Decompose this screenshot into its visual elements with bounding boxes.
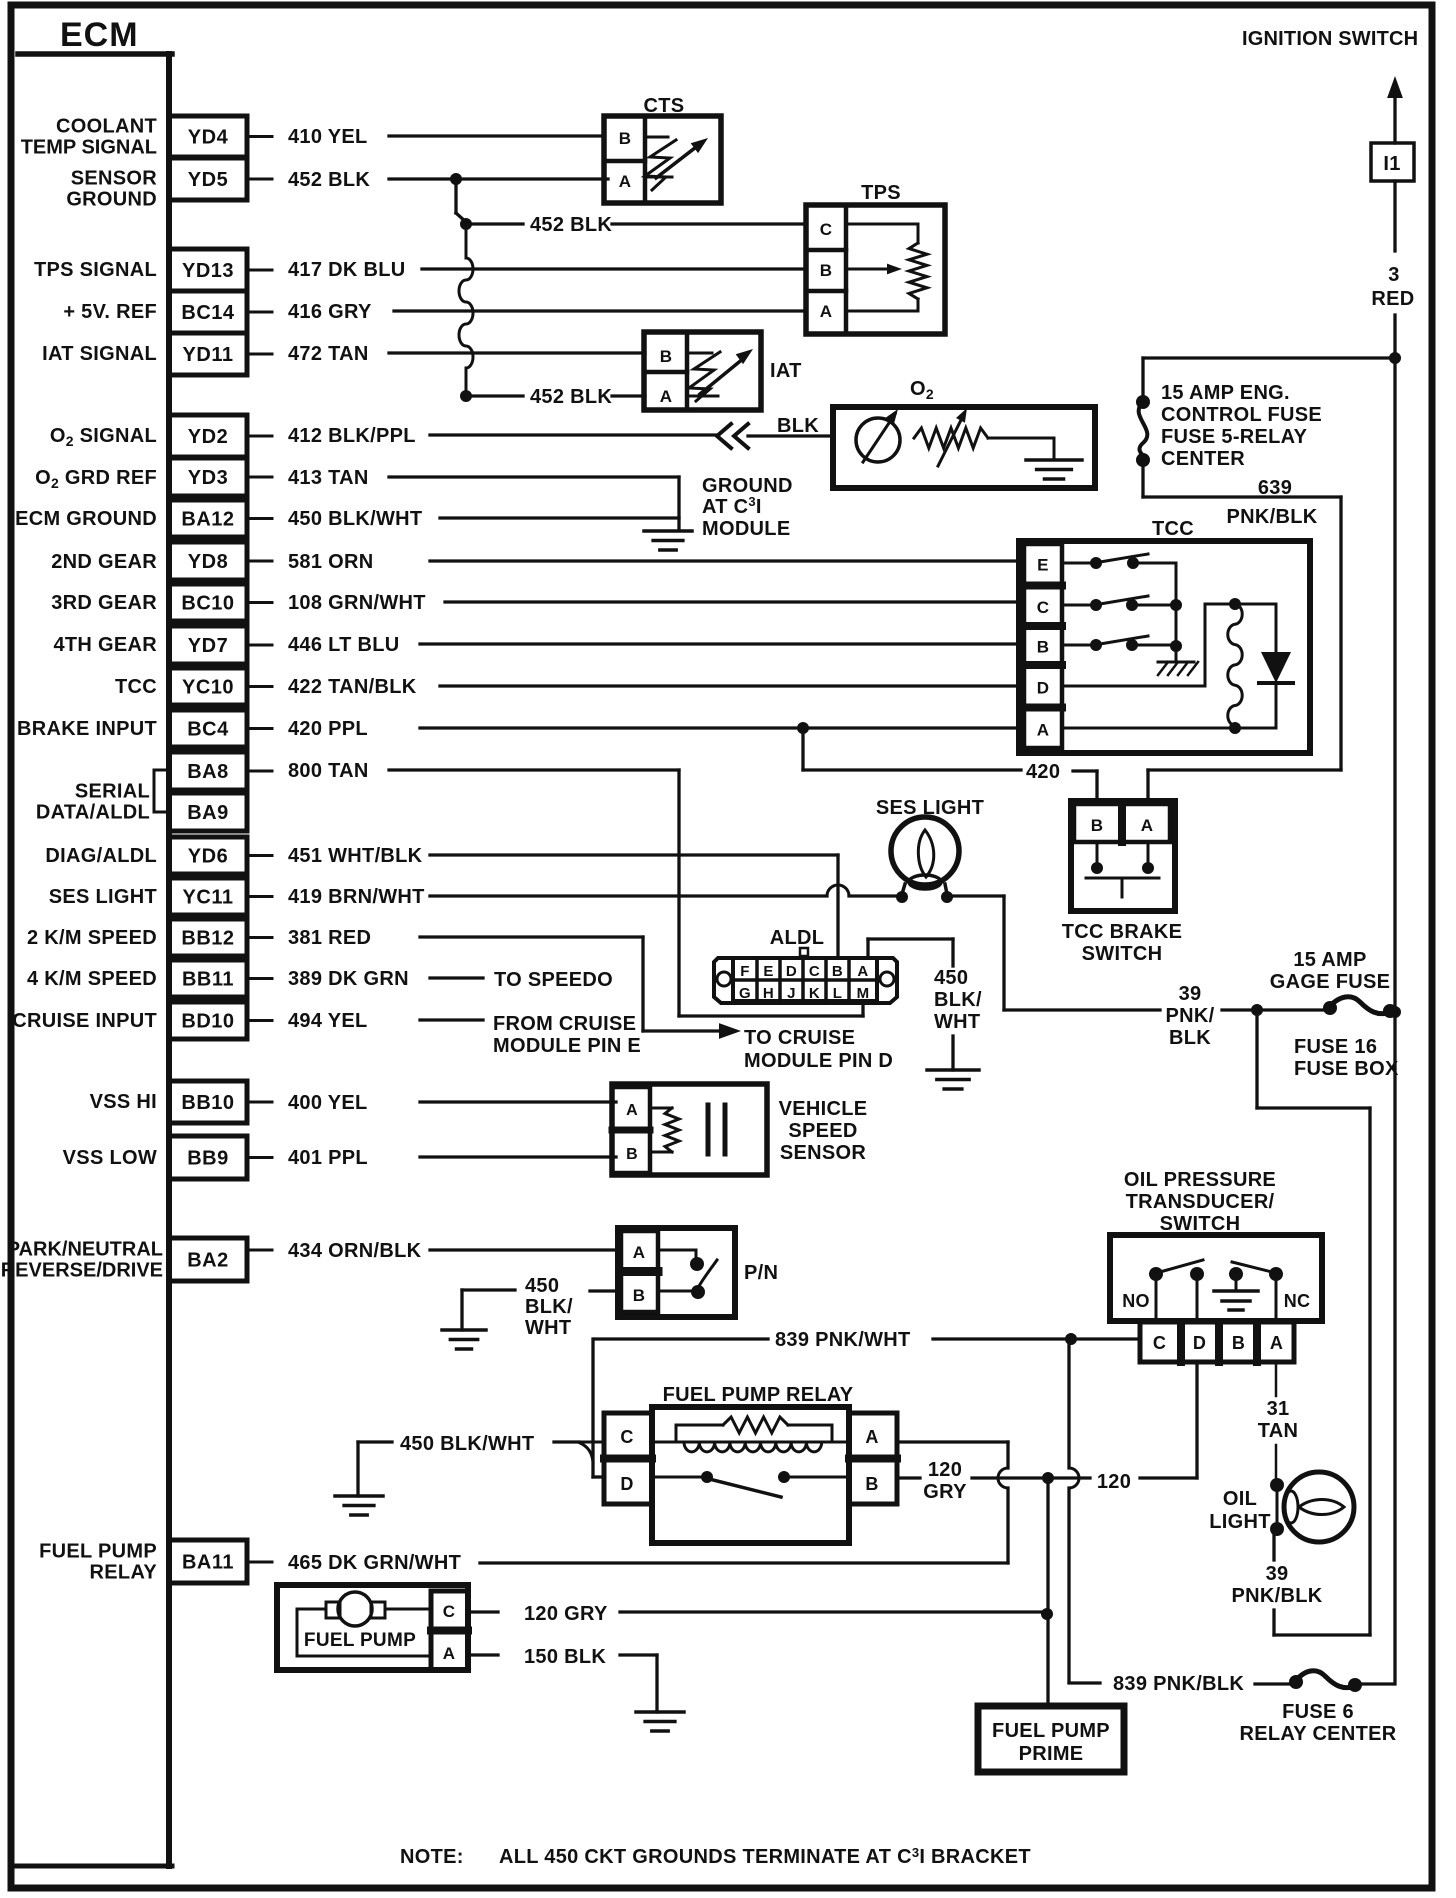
svg-text:YC10: YC10 [182, 677, 234, 699]
svg-text:RED: RED [1371, 288, 1414, 310]
svg-text:B: B [633, 1286, 646, 1305]
svg-text:TO SPEEDO: TO SPEEDO [494, 969, 613, 991]
svg-text:YC11: YC11 [183, 887, 234, 909]
svg-text:FUEL PUMP: FUEL PUMP [304, 1630, 416, 1651]
svg-text:A: A [1141, 816, 1154, 835]
svg-text:PARK/NEUTRAL: PARK/NEUTRAL [7, 1239, 163, 1261]
svg-text:400 YEL: 400 YEL [288, 1092, 368, 1114]
svg-text:COOLANT: COOLANT [56, 116, 157, 138]
svg-text:BC10: BC10 [181, 593, 234, 615]
svg-text:MODULE PIN D: MODULE PIN D [744, 1050, 893, 1072]
svg-text:120: 120 [928, 1459, 962, 1481]
svg-text:SES LIGHT: SES LIGHT [49, 886, 157, 908]
svg-text:+ 5V. REF: + 5V. REF [63, 301, 157, 323]
svg-text:RELAY: RELAY [90, 1562, 158, 1584]
svg-text:B: B [626, 1146, 638, 1163]
svg-text:422 TAN/BLK: 422 TAN/BLK [288, 676, 417, 698]
svg-text:BRAKE INPUT: BRAKE INPUT [17, 718, 157, 740]
svg-text:BD10: BD10 [181, 1011, 234, 1033]
svg-text:BC4: BC4 [187, 719, 229, 741]
svg-text:2ND GEAR: 2ND GEAR [51, 551, 157, 573]
svg-text:PNK/BLK: PNK/BLK [1232, 1585, 1323, 1607]
svg-text:I1: I1 [1383, 153, 1400, 175]
svg-text:419 BRN/WHT: 419 BRN/WHT [288, 886, 425, 908]
svg-text:SERIAL: SERIAL [75, 781, 150, 803]
svg-text:SENSOR: SENSOR [780, 1142, 867, 1164]
svg-text:G: G [739, 985, 751, 1002]
svg-text:581 ORN: 581 ORN [288, 551, 373, 573]
svg-text:452 BLK: 452 BLK [530, 386, 612, 408]
svg-text:WHT: WHT [525, 1317, 571, 1339]
svg-text:CONTROL FUSE: CONTROL FUSE [1161, 404, 1322, 426]
svg-text:434 ORN/BLK: 434 ORN/BLK [288, 1240, 422, 1262]
svg-text:YD8: YD8 [188, 551, 228, 573]
svg-text:TAN: TAN [1258, 1420, 1299, 1442]
svg-text:TEMP SIGNAL: TEMP SIGNAL [21, 137, 157, 159]
svg-text:YD11: YD11 [183, 344, 234, 366]
svg-text:DATA/ALDL: DATA/ALDL [36, 802, 150, 824]
svg-text:A: A [626, 1102, 638, 1119]
svg-text:108 GRN/WHT: 108 GRN/WHT [288, 592, 426, 614]
svg-text:4 K/M SPEED: 4 K/M SPEED [27, 968, 157, 990]
svg-text:FUSE 16: FUSE 16 [1294, 1036, 1377, 1058]
svg-text:494 YEL: 494 YEL [288, 1010, 368, 1032]
svg-text:PNK/BLK: PNK/BLK [1227, 506, 1318, 528]
svg-text:SWITCH: SWITCH [1160, 1213, 1241, 1235]
svg-text:BLK: BLK [1169, 1027, 1211, 1049]
svg-text:C: C [809, 963, 820, 980]
svg-text:150 BLK: 150 BLK [524, 1646, 606, 1668]
svg-text:A: A [633, 1243, 646, 1262]
svg-text:DIAG/ALDL: DIAG/ALDL [45, 845, 157, 867]
svg-text:B: B [619, 129, 632, 148]
svg-text:SPEED: SPEED [788, 1120, 857, 1142]
svg-text:839 PNK/BLK: 839 PNK/BLK [1113, 1673, 1244, 1695]
svg-text:416 GRY: 416 GRY [288, 301, 372, 323]
svg-text:TPS SIGNAL: TPS SIGNAL [34, 259, 157, 281]
svg-text:381 RED: 381 RED [288, 927, 371, 949]
svg-text:410 YEL: 410 YEL [288, 126, 368, 148]
svg-text:TCC BRAKE: TCC BRAKE [1062, 921, 1182, 943]
svg-text:D: D [620, 1474, 633, 1494]
svg-text:A: A [1037, 721, 1050, 740]
svg-text:800 TAN: 800 TAN [288, 760, 369, 782]
svg-text:BB12: BB12 [181, 928, 234, 950]
svg-text:3: 3 [1388, 264, 1399, 286]
svg-text:NO: NO [1122, 1291, 1150, 1311]
svg-text:39: 39 [1179, 983, 1202, 1005]
svg-text:TPS: TPS [861, 182, 901, 204]
svg-text:FUEL PUMP: FUEL PUMP [39, 1541, 157, 1563]
svg-text:FUEL PUMP: FUEL PUMP [992, 1720, 1110, 1742]
svg-text:BC14: BC14 [181, 302, 235, 324]
svg-text:ALL 450 CKT GROUNDS TERMINATE: ALL 450 CKT GROUNDS TERMINATE AT C3I BRA… [499, 1845, 1031, 1868]
svg-text:H: H [763, 985, 774, 1002]
svg-text:YD7: YD7 [188, 635, 228, 657]
svg-text:BB9: BB9 [187, 1148, 229, 1170]
svg-text:YD2: YD2 [188, 426, 228, 448]
svg-text:B: B [1037, 638, 1050, 657]
svg-text:420: 420 [1026, 761, 1060, 783]
svg-text:YD6: YD6 [188, 846, 228, 868]
svg-text:2 K/M SPEED: 2 K/M SPEED [27, 927, 157, 949]
svg-text:15 AMP: 15 AMP [1293, 949, 1366, 971]
svg-text:C: C [1153, 1333, 1166, 1353]
svg-text:3RD GEAR: 3RD GEAR [51, 592, 157, 614]
svg-text:D: D [1037, 679, 1050, 698]
svg-text:PNK/: PNK/ [1166, 1005, 1215, 1027]
svg-text:YD4: YD4 [188, 127, 229, 149]
svg-text:K: K [809, 985, 820, 1002]
svg-text:120 GRY: 120 GRY [524, 1603, 608, 1625]
svg-text:IGNITION SWITCH: IGNITION SWITCH [1242, 28, 1418, 50]
svg-text:639: 639 [1258, 477, 1292, 499]
svg-text:B: B [865, 1474, 878, 1494]
svg-text:P/N: P/N [744, 1262, 778, 1284]
svg-text:FUSE 6: FUSE 6 [1282, 1701, 1354, 1723]
svg-text:D: D [786, 963, 797, 980]
svg-text:VSS LOW: VSS LOW [63, 1147, 157, 1169]
svg-text:NOTE:: NOTE: [400, 1846, 464, 1868]
svg-text:TO CRUISE: TO CRUISE [744, 1027, 855, 1049]
svg-text:BLK/: BLK/ [525, 1296, 573, 1318]
svg-text:BA12: BA12 [181, 509, 234, 531]
svg-text:J: J [787, 985, 796, 1002]
svg-text:LIGHT: LIGHT [1209, 1511, 1271, 1533]
svg-text:413 TAN: 413 TAN [288, 467, 369, 489]
svg-text:E: E [763, 963, 773, 980]
svg-text:YD5: YD5 [188, 169, 228, 191]
svg-text:B: B [1232, 1333, 1245, 1353]
svg-text:389 DK GRN: 389 DK GRN [288, 968, 409, 990]
svg-text:OIL PRESSURE: OIL PRESSURE [1124, 1169, 1276, 1191]
svg-text:L: L [833, 985, 842, 1002]
svg-text:412 BLK/PPL: 412 BLK/PPL [288, 425, 416, 447]
svg-text:839 PNK/WHT: 839 PNK/WHT [775, 1329, 911, 1351]
svg-text:31: 31 [1267, 1398, 1290, 1420]
svg-text:BA11: BA11 [182, 1552, 234, 1574]
svg-text:472 TAN: 472 TAN [288, 343, 369, 365]
svg-text:F: F [740, 963, 749, 980]
svg-text:FROM CRUISE: FROM CRUISE [493, 1013, 636, 1035]
svg-text:A: A [443, 1644, 456, 1663]
svg-text:FUSE 5-RELAY: FUSE 5-RELAY [1161, 426, 1308, 448]
svg-text:A: A [660, 387, 673, 406]
svg-text:C: C [1037, 598, 1050, 617]
svg-text:PRIME: PRIME [1019, 1743, 1084, 1765]
svg-text:B: B [660, 347, 673, 366]
svg-text:CRUISE INPUT: CRUISE INPUT [12, 1010, 157, 1032]
svg-text:VSS HI: VSS HI [90, 1091, 157, 1113]
svg-text:TRANSDUCER/: TRANSDUCER/ [1126, 1191, 1275, 1213]
svg-text:B: B [820, 261, 833, 280]
svg-text:REVERSE/DRIVE: REVERSE/DRIVE [1, 1260, 163, 1282]
svg-text:120: 120 [1097, 1471, 1131, 1493]
svg-text:A: A [820, 302, 833, 321]
svg-text:4TH GEAR: 4TH GEAR [53, 634, 157, 656]
svg-text:GROUND: GROUND [66, 189, 157, 211]
svg-text:IAT SIGNAL: IAT SIGNAL [42, 343, 157, 365]
svg-text:401 PPL: 401 PPL [288, 1147, 368, 1169]
svg-text:D: D [1193, 1333, 1206, 1353]
svg-text:446 LT BLU: 446 LT BLU [288, 634, 400, 656]
svg-text:OIL: OIL [1223, 1488, 1257, 1510]
svg-text:C: C [820, 220, 833, 239]
svg-text:A: A [865, 1427, 878, 1447]
svg-text:YD13: YD13 [182, 260, 234, 282]
svg-text:BB11: BB11 [182, 969, 234, 991]
svg-text:TCC: TCC [115, 676, 157, 698]
svg-text:BA9: BA9 [187, 802, 229, 824]
svg-text:E: E [1037, 556, 1049, 575]
svg-text:452 BLK: 452 BLK [530, 214, 612, 236]
svg-text:NC: NC [1284, 1291, 1311, 1311]
svg-text:MODULE: MODULE [702, 518, 790, 540]
svg-text:A: A [1270, 1333, 1283, 1353]
svg-text:BLK/: BLK/ [934, 989, 982, 1011]
svg-text:39: 39 [1266, 1563, 1289, 1585]
svg-text:451 WHT/BLK: 451 WHT/BLK [288, 845, 423, 867]
svg-text:SWITCH: SWITCH [1082, 943, 1163, 965]
svg-text:452 BLK: 452 BLK [288, 169, 370, 191]
svg-text:M: M [857, 985, 870, 1002]
svg-text:BA2: BA2 [187, 1250, 229, 1272]
svg-text:WHT: WHT [934, 1011, 980, 1033]
svg-text:BLK: BLK [777, 415, 819, 437]
svg-text:A: A [857, 963, 868, 980]
svg-text:450 BLK/WHT: 450 BLK/WHT [288, 508, 422, 530]
svg-text:SENSOR: SENSOR [71, 168, 158, 190]
svg-text:450: 450 [525, 1275, 559, 1297]
svg-text:C: C [443, 1602, 456, 1621]
svg-text:465 DK GRN/WHT: 465 DK GRN/WHT [288, 1552, 461, 1574]
svg-text:FUEL PUMP RELAY: FUEL PUMP RELAY [663, 1384, 854, 1406]
svg-text:IAT: IAT [770, 360, 802, 382]
svg-text:417 DK BLU: 417 DK BLU [288, 259, 405, 281]
svg-text:15 AMP ENG.: 15 AMP ENG. [1161, 382, 1290, 404]
svg-text:RELAY CENTER: RELAY CENTER [1240, 1723, 1397, 1745]
svg-text:BB10: BB10 [181, 1092, 234, 1114]
svg-text:YD3: YD3 [188, 467, 228, 489]
svg-text:B: B [1091, 816, 1104, 835]
svg-text:ALDL: ALDL [770, 927, 825, 949]
svg-text:GRY: GRY [923, 1481, 967, 1503]
svg-text:ECM GROUND: ECM GROUND [15, 508, 157, 530]
svg-text:C: C [620, 1427, 633, 1447]
svg-text:MODULE PIN E: MODULE PIN E [493, 1035, 641, 1057]
svg-text:ECM: ECM [60, 16, 139, 54]
svg-text:TCC: TCC [1152, 518, 1194, 540]
svg-text:450: 450 [934, 967, 968, 989]
svg-text:GROUND: GROUND [702, 475, 793, 497]
svg-text:450 BLK/WHT: 450 BLK/WHT [400, 1433, 534, 1455]
svg-text:VEHICLE: VEHICLE [779, 1098, 868, 1120]
svg-text:BA8: BA8 [187, 761, 229, 783]
svg-text:GAGE FUSE: GAGE FUSE [1270, 971, 1391, 993]
svg-text:A: A [619, 172, 632, 191]
svg-text:CENTER: CENTER [1161, 448, 1245, 470]
svg-text:FUSE BOX: FUSE BOX [1294, 1058, 1399, 1080]
svg-text:B: B [832, 963, 843, 980]
svg-text:420 PPL: 420 PPL [288, 718, 368, 740]
